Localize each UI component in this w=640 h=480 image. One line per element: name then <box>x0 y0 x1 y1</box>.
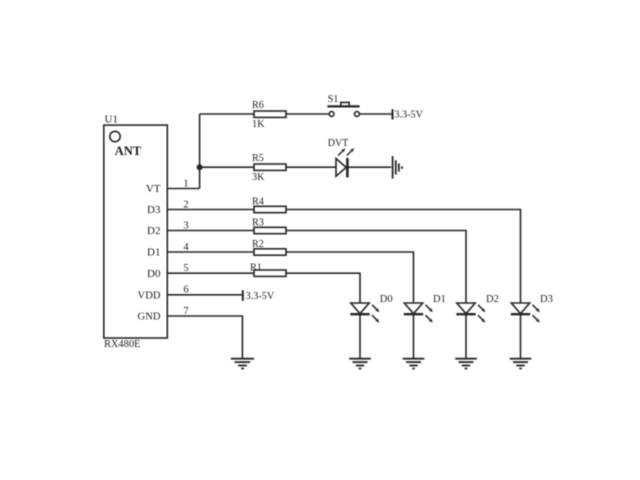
svg-text:ANT: ANT <box>115 144 142 158</box>
svg-text:D0: D0 <box>147 268 161 280</box>
switch S1 actuator bump <box>341 102 349 106</box>
power bar 3.3-5V VDD <box>242 290 244 301</box>
LED D1 arrow1 <box>426 305 433 312</box>
svg-text:R4: R4 <box>252 197 264 208</box>
earth ground right bar4 <box>401 166 403 168</box>
LED D3 triangle <box>511 303 529 314</box>
ground under D2 bar3 <box>462 365 470 367</box>
wire R5 row horizontal <box>200 166 336 168</box>
svg-text:3: 3 <box>183 220 188 231</box>
svg-text:GND: GND <box>138 312 161 323</box>
ground under D1 bar2 <box>406 361 421 363</box>
earth ground right bar2 <box>395 160 397 174</box>
svg-text:6: 6 <box>183 285 188 296</box>
svg-text:1K: 1K <box>252 119 265 130</box>
LED D1 cathode bar <box>404 313 423 315</box>
svg-text:R2: R2 <box>252 239 264 250</box>
LED D0 arrow2 <box>372 315 379 322</box>
earth ground bottom-left bar3 <box>238 365 247 367</box>
ground under D0 bar4 <box>359 368 362 370</box>
ground under D0 bar2 <box>353 361 368 363</box>
LED D0 arrow1 <box>372 305 379 312</box>
earth ground bottom-left bar4 <box>241 368 244 370</box>
LED D0 wire to ground <box>359 314 361 358</box>
ground under D3 bar2 <box>513 361 528 363</box>
resistor R4 body <box>254 206 286 212</box>
svg-text:S1: S1 <box>328 94 339 105</box>
svg-text:D0: D0 <box>380 294 393 305</box>
wire switch to power bar <box>359 113 392 115</box>
resistor R1 body <box>254 270 286 276</box>
svg-text:VT: VT <box>146 183 161 195</box>
svg-text:R6: R6 <box>252 100 264 111</box>
wire pin2 D3 row <box>167 210 520 304</box>
ground under D2 bar2 <box>459 361 474 363</box>
svg-text:RX480E: RX480E <box>104 339 140 350</box>
svg-text:2: 2 <box>183 199 188 210</box>
wire vertical from VT up to R6 row <box>199 114 201 189</box>
svg-text:5: 5 <box>183 263 188 274</box>
svg-text:R3: R3 <box>252 218 264 229</box>
LED DVT arrow 1 <box>338 148 345 155</box>
svg-text:D1: D1 <box>433 294 446 305</box>
LED D0 cathode bar <box>350 313 369 315</box>
wire R6 row horizontal <box>200 113 330 115</box>
resistor R6 body <box>254 111 286 117</box>
LED D2 triangle <box>457 303 475 314</box>
LED D2 arrow1 <box>478 305 485 312</box>
ground under D0 bar3 <box>356 365 364 367</box>
switch S1 contact right <box>355 112 360 117</box>
svg-text:3K: 3K <box>252 172 265 183</box>
switch S1 actuator bar <box>327 105 359 107</box>
svg-text:R5: R5 <box>252 153 264 164</box>
svg-text:VDD: VDD <box>138 291 161 302</box>
svg-text:D2: D2 <box>147 225 160 237</box>
LED D3 arrow1 <box>533 305 540 312</box>
LED DVT arrow 2 <box>347 148 354 155</box>
wire pin4 D1 row <box>167 252 413 303</box>
switch S1 contact left <box>329 112 334 117</box>
svg-text:3.3-5V: 3.3-5V <box>246 291 275 302</box>
svg-text:D3: D3 <box>540 294 553 305</box>
svg-text:4: 4 <box>183 242 189 253</box>
svg-text:DVT: DVT <box>328 138 349 149</box>
LED D0 <box>349 303 379 369</box>
LED D3 cathode bar <box>511 313 530 315</box>
svg-text:1: 1 <box>183 178 188 189</box>
earth ground bottom-left bar1 <box>231 358 254 360</box>
svg-text:D2: D2 <box>486 294 499 305</box>
wire pin7 GND row <box>167 316 242 358</box>
svg-text:R1: R1 <box>250 262 262 273</box>
LED D0 triangle <box>351 303 369 314</box>
LED D3 wire to ground <box>520 314 522 358</box>
resistor R2 body <box>254 249 286 255</box>
LED D2 wire to ground <box>465 314 467 358</box>
svg-text:7: 7 <box>183 306 188 317</box>
svg-text:D1: D1 <box>147 247 160 259</box>
LED D3 arrow2 <box>533 315 540 322</box>
svg-text:D3: D3 <box>147 204 161 216</box>
svg-text:3.3-5V: 3.3-5V <box>394 110 423 121</box>
earth ground right (rotated) bar1 <box>392 156 394 179</box>
ground under D3 bar1 <box>510 358 532 360</box>
IC U1 body RX480E <box>104 125 168 338</box>
LED D2 cathode bar <box>456 313 475 315</box>
ground under D2 bar4 <box>465 368 468 370</box>
ground under D1 bar1 <box>403 358 425 360</box>
LED D1 wire to ground <box>413 314 415 358</box>
wire pin6 VDD row <box>167 294 243 296</box>
power bar 3.3-5V top <box>392 109 394 119</box>
earth ground right bar3 <box>398 163 400 171</box>
ground under D2 bar1 <box>455 358 477 360</box>
wire pin5 D0 row <box>167 273 360 303</box>
wire DVT cathode to ground <box>348 166 391 168</box>
antenna pin circle <box>110 131 120 141</box>
wire pin3 D2 row <box>167 231 466 304</box>
LED D3 <box>510 303 540 369</box>
ground under D3 bar4 <box>519 368 522 370</box>
LED D2 arrow2 <box>478 315 485 322</box>
LED DVT triangle <box>336 159 346 177</box>
resistor R5 body <box>254 164 286 170</box>
LED DVT cathode bar <box>346 158 349 178</box>
ground under D1 bar4 <box>412 368 415 370</box>
ground under D1 bar3 <box>409 365 417 367</box>
resistor R3 body <box>254 227 286 233</box>
earth ground bottom-left bar2 <box>235 361 251 363</box>
LED D1 arrow2 <box>426 315 433 322</box>
node junction dot <box>197 164 203 170</box>
ground under D0 bar1 <box>349 358 371 360</box>
LED D1 <box>403 303 433 369</box>
svg-text:U1: U1 <box>105 113 118 125</box>
LED D1 triangle <box>404 303 422 314</box>
LED D2 <box>455 303 485 369</box>
wire pin1 VT horizontal <box>167 188 199 190</box>
ground under D3 bar3 <box>516 365 524 367</box>
